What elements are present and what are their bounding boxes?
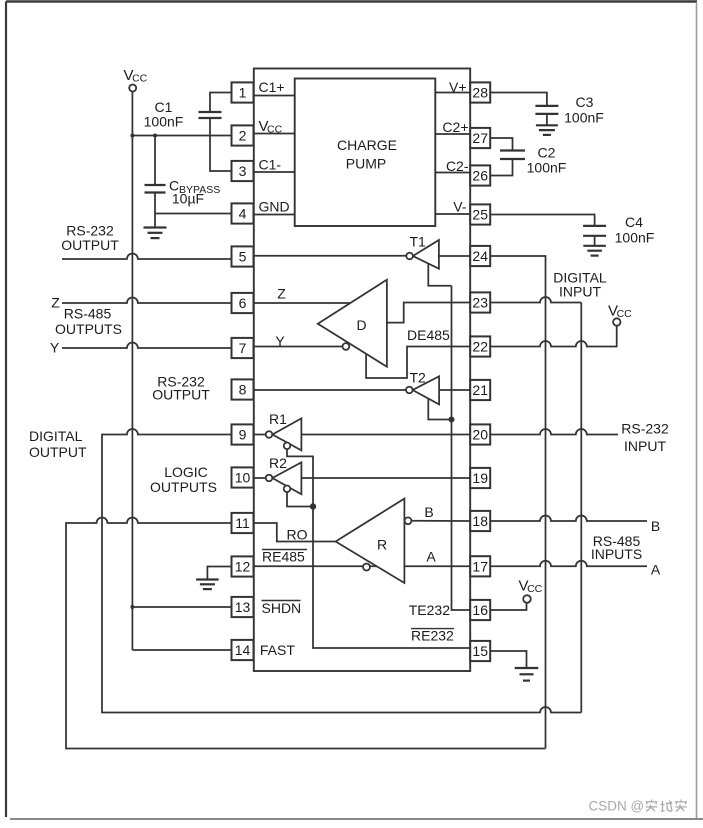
label Y [50,340,60,356]
net RE485 / A line [254,565,470,567]
wire pin 9 digital output loop [102,429,581,712]
svg-text:V+: V+ [449,79,467,95]
label RS-232 INPUT [621,421,669,455]
label R2 [269,455,287,471]
watermark CSDN [589,799,688,814]
bubble R input B [405,517,412,524]
label D [356,317,366,333]
pin 25 [470,204,490,224]
svg-text:CC: CC [527,583,543,595]
pin 1 [232,82,254,102]
wire pin 13 SHDN [132,606,231,608]
label B (internal) [424,504,433,520]
svg-text:Y: Y [50,340,60,356]
svg-text:C3: C3 [576,94,594,110]
label C1 100nF [144,99,184,130]
receiver R [336,499,405,583]
svg-text:Y: Y [275,333,285,349]
label C1- [259,157,282,173]
label V+ [449,79,467,95]
label C4 100nF [615,214,655,246]
node VCC rail junction [130,134,134,138]
svg-text:OUTPUT: OUTPUT [29,444,87,460]
svg-text:T1: T1 [410,234,427,250]
svg-text:GND: GND [259,199,290,215]
wire V- stub [435,213,470,215]
capacitor C1 [199,93,233,172]
svg-text:10: 10 [235,470,251,486]
label CBYPASS 10uF [169,178,220,207]
wire CBYPASS to pin 4 [155,213,233,215]
wire RO pin 11 to R [254,523,336,542]
ground (C4) [583,246,606,256]
label SHDN [262,600,302,616]
pin 15 [470,641,490,661]
svg-text:26: 26 [472,168,488,184]
svg-text:19: 19 [472,470,488,486]
capacitor CBYPASS [145,136,166,228]
label DIGITAL OUTPUT [29,428,87,460]
svg-text:R: R [377,537,387,553]
pin 24 [470,246,490,266]
net TE232 vertical [452,286,471,610]
label R [377,537,387,553]
label T1 [410,234,427,250]
power terminal VCC (pin 16) [519,578,543,603]
pin 17 [470,556,490,576]
wire C2- stub [435,172,470,174]
wire D input from pin 23 [387,303,470,323]
svg-text:6: 6 [239,295,247,311]
wire Z output [62,298,232,303]
svg-text:TE232: TE232 [409,602,450,618]
wire pin 20 RS-232 input [490,429,618,435]
wire Z pin 6 to D [254,302,352,304]
svg-text:12: 12 [235,559,251,575]
svg-text:15: 15 [472,643,488,659]
svg-text:DE485: DE485 [407,327,450,343]
svg-text:25: 25 [472,207,488,223]
power terminal VCC (pin 22) [608,303,632,326]
label V- [453,199,467,215]
wire pin 11 loop [66,518,546,749]
wire Y output [62,343,232,348]
svg-text:3: 3 [239,163,247,179]
svg-text:OUTPUT: OUTPUT [152,387,210,403]
label RS-485 OUTPUTS [55,306,122,338]
pin 7 [232,338,254,358]
wire pin 10 to R2 [254,477,266,479]
svg-text:16: 16 [472,602,488,618]
label C2- [446,158,469,174]
svg-text:RE232: RE232 [411,628,454,644]
svg-text:A: A [651,562,661,578]
label A (internal) [426,549,436,565]
ground (C3) [536,125,558,135]
wire R2 enable [287,492,310,506]
label R1 [269,411,287,427]
wire pin 22 to VCC [490,326,617,347]
svg-text:10µF: 10µF [172,191,204,207]
svg-text:8: 8 [239,382,247,398]
label GND [259,199,290,215]
pin 21 [470,380,490,400]
label A [651,562,661,578]
label DIGITAL INPUT [553,270,607,300]
wire C1+ stub [254,95,295,97]
pin 5 [232,246,254,266]
pin 2 [232,125,254,145]
svg-text:C4: C4 [625,214,643,230]
driver D [318,280,387,367]
svg-text:27: 27 [472,130,488,146]
svg-text:RO: RO [287,527,308,543]
transmitter T1 [406,240,439,269]
svg-text:C2-: C2- [446,158,469,174]
wire A input [490,561,647,567]
wire GND stub [254,214,295,216]
node CBYPASS tap [153,134,157,138]
label T2 [410,370,427,386]
svg-text:CC: CC [617,308,633,320]
wire C1- stub [254,171,295,173]
label RS-232 OUTPUT (pin 5) [61,223,119,254]
wire V+ stub [435,92,470,94]
svg-text:C1+: C1+ [259,79,285,95]
svg-text:INPUT: INPUT [624,438,666,454]
svg-text:B: B [424,504,433,520]
pin 27 [470,128,490,148]
wire T1 input to pin 24 [439,255,470,257]
wire R1 enable [287,449,313,506]
capacitor C2 [500,151,525,160]
pin 16 [470,600,490,620]
label RE232 [411,628,454,644]
label Z [51,295,60,311]
svg-text:CC: CC [267,124,283,136]
label C2+ [442,119,468,135]
bubble R2 enable [284,486,291,493]
svg-text:OUTPUTS: OUTPUTS [150,479,217,495]
wire C2 to pin 26 [490,159,512,176]
wire VCC vertical bus [131,136,133,651]
ground (RE485 pin 12) [196,580,219,590]
pin 13 [232,597,254,617]
IC body U1 [254,69,470,672]
svg-text:24: 24 [472,248,488,264]
wire B to pin 18 [411,520,470,522]
label RS-485 INPUTS [591,533,642,562]
wire R1 input from pin 20 [301,434,470,436]
svg-text:100nF: 100nF [144,114,184,130]
pin 4 [232,203,254,223]
bubble D inverting output Y [343,343,350,350]
svg-text:9: 9 [239,427,247,443]
svg-text:R2: R2 [269,455,287,471]
wire T1 output to pin 5 [254,255,406,257]
wire VCC pin2 stub [254,133,295,135]
capacitor C4 [583,226,606,246]
pin 22 [470,336,490,356]
label B [651,518,660,534]
label C3 100nF [564,94,604,126]
node T2 enable junction [449,417,455,423]
ground (RE232 pin 15) [515,668,539,681]
svg-text:20: 20 [472,427,488,443]
pin 12 [232,556,254,576]
wire pin 28 to C3 [490,93,547,106]
wire VCC rail to pin 2 [132,135,232,137]
label LOGIC OUTPUTS [150,464,217,495]
svg-text:T2: T2 [410,370,427,386]
pin 19 [470,468,490,488]
svg-text:100nF: 100nF [615,230,655,246]
bubble R1 enable [284,443,291,450]
wire pin 9 to R1 [254,434,266,436]
svg-text:A: A [426,549,436,565]
label RE485 [262,549,307,565]
svg-text:5: 5 [239,249,247,265]
wire pin 5 RS-232 output [62,254,232,259]
svg-text:RE485: RE485 [262,549,305,565]
svg-text:22: 22 [472,339,488,355]
ground (CBYPASS) [144,228,167,239]
label C2 100nF [527,145,567,176]
wire T2 enable [428,398,451,419]
wire pin 23 loop [490,297,581,303]
wire T1 enable [428,264,451,286]
label Y (internal) [275,333,285,349]
svg-text:C2+: C2+ [442,119,468,135]
svg-text:LOGIC: LOGIC [164,464,208,480]
pin 14 [232,640,254,660]
svg-text:OUTPUT: OUTPUT [61,237,119,253]
svg-text:PUMP: PUMP [346,156,386,172]
svg-text:14: 14 [235,642,251,658]
label FAST [260,642,295,658]
pin 26 [470,165,490,185]
pin 10 [232,467,254,487]
svg-text:100nF: 100nF [564,110,604,126]
wire T2 input to pin 21 [439,389,470,391]
svg-text:CSDN @: CSDN @ [589,799,645,814]
svg-text:7: 7 [239,340,247,356]
wire pin 16 to VCC [490,603,526,610]
svg-text:11: 11 [235,515,250,531]
svg-text:23: 23 [472,295,488,311]
wire Y pin 7 to D [254,346,343,348]
receiver R1 [266,418,302,450]
pin 28 [470,82,490,102]
svg-text:V-: V- [453,199,467,215]
svg-text:4: 4 [239,206,247,222]
pin 3 [232,161,254,181]
net DE485 to pin 22 [366,347,470,379]
svg-text:RS-232: RS-232 [621,421,669,437]
net enable to RE232 pin 15 [313,507,470,649]
label C1+ [259,79,285,95]
wire pin 24 loop (to T1 input) [490,256,545,749]
wire pin 14 FAST [132,649,231,651]
pin 20 [470,424,490,444]
wire loop 2 vertical [580,303,582,713]
label VCC (pin 2) [259,118,283,136]
wire T2 output to pin 8 [254,389,406,391]
bubble R enable [363,564,370,571]
svg-text:18: 18 [472,513,488,529]
label RS-232 OUTPUT (pin 8) [152,374,210,403]
receiver R2 [266,462,302,494]
svg-text:13: 13 [235,599,251,615]
svg-text:C2: C2 [538,145,556,161]
pin 11 [232,513,254,533]
svg-text:DIGITAL: DIGITAL [29,428,83,444]
svg-text:CC: CC [132,73,148,85]
svg-text:100nF: 100nF [527,160,567,176]
label RO [287,527,308,543]
pin 23 [470,292,490,312]
pin 8 [232,379,254,399]
svg-text:21: 21 [472,382,488,398]
transmitter T2 [406,376,439,404]
svg-text:Z: Z [277,286,286,302]
svg-text:SHDN: SHDN [262,600,302,616]
node SHDN junction [130,605,134,609]
wire R2 input to pin 19 [301,477,470,479]
power terminal VCC (top left) [124,67,148,136]
svg-text:CHARGE: CHARGE [337,137,397,153]
charge pump block [295,79,436,227]
wire B input [490,516,647,522]
svg-text:2: 2 [239,128,247,144]
svg-text:OUTPUTS: OUTPUTS [55,321,122,337]
wire C2+ stub [435,133,470,135]
wire pin 12 to ground [207,567,231,580]
label TE232 [409,602,450,618]
svg-text:INPUT: INPUT [559,284,601,300]
node R1/R2 enable junction [310,503,316,509]
pin 9 [232,424,254,444]
svg-text:INPUTS: INPUTS [591,546,642,562]
svg-text:1: 1 [239,85,247,101]
label DE485 [407,327,450,343]
svg-text:17: 17 [472,558,488,574]
pin 18 [470,511,490,531]
svg-text:R1: R1 [269,411,287,427]
label Z (internal) [277,286,286,302]
capacitor C3 [535,106,558,125]
svg-text:RS-485: RS-485 [64,306,112,322]
svg-text:D: D [356,317,366,333]
svg-text:FAST: FAST [260,642,295,658]
svg-text:B: B [651,518,660,534]
pin 6 [232,293,254,313]
wire pin 25 to C4 [490,215,594,226]
wire pin 15 to ground [490,651,526,668]
svg-text:28: 28 [472,85,488,101]
wire pin 27 to C2 [490,138,512,151]
svg-text:Z: Z [51,295,60,311]
svg-text:C1-: C1- [259,157,282,173]
